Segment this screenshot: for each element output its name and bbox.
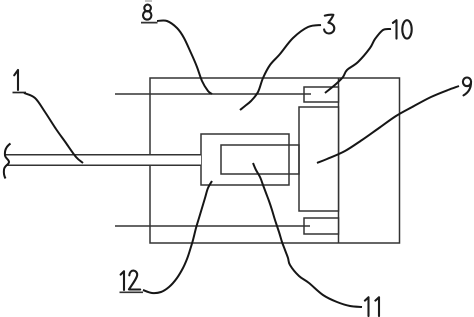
label 1 underline bbox=[13, 92, 27, 94]
label 10 digits bbox=[393, 20, 397, 38]
bottom guide rail bbox=[115, 225, 310, 227]
rod break squiggle bbox=[4, 144, 11, 179]
leader line 8 bbox=[157, 20, 212, 94]
top guide rail 8 bbox=[115, 93, 311, 95]
rod 1 body mask bbox=[6, 155, 201, 165]
bottom slider block bbox=[304, 218, 339, 234]
label 3 digit bbox=[324, 15, 334, 34]
label 8 top mark bbox=[145, 0, 152, 2]
support plate 9 bbox=[299, 107, 339, 211]
label 8 digit bbox=[144, 5, 151, 12]
leader line 10 bbox=[325, 29, 391, 93]
rod 1 bottom line bbox=[6, 164, 201, 166]
label 8 underline bbox=[141, 22, 158, 24]
leader line 12 bbox=[143, 181, 212, 293]
label 1 digit bbox=[14, 70, 18, 90]
label 12 digits bbox=[121, 271, 124, 290]
inner block 11 bbox=[221, 145, 299, 174]
label 12 underline bbox=[120, 291, 144, 293]
rod 1 top line bbox=[5, 154, 201, 156]
leader line 9 bbox=[317, 86, 459, 163]
inner partition wall bbox=[338, 78, 340, 243]
leader line 1 bbox=[24, 93, 83, 163]
label 9 digit bbox=[463, 78, 471, 87]
top slider block 10 bbox=[304, 87, 339, 102]
motor body block 12 bbox=[201, 134, 289, 185]
housing outer rectangle 3 bbox=[150, 78, 400, 243]
label 11 digits bbox=[365, 297, 379, 316]
leader line 11 bbox=[253, 163, 362, 307]
leader line 3 bbox=[240, 25, 321, 110]
